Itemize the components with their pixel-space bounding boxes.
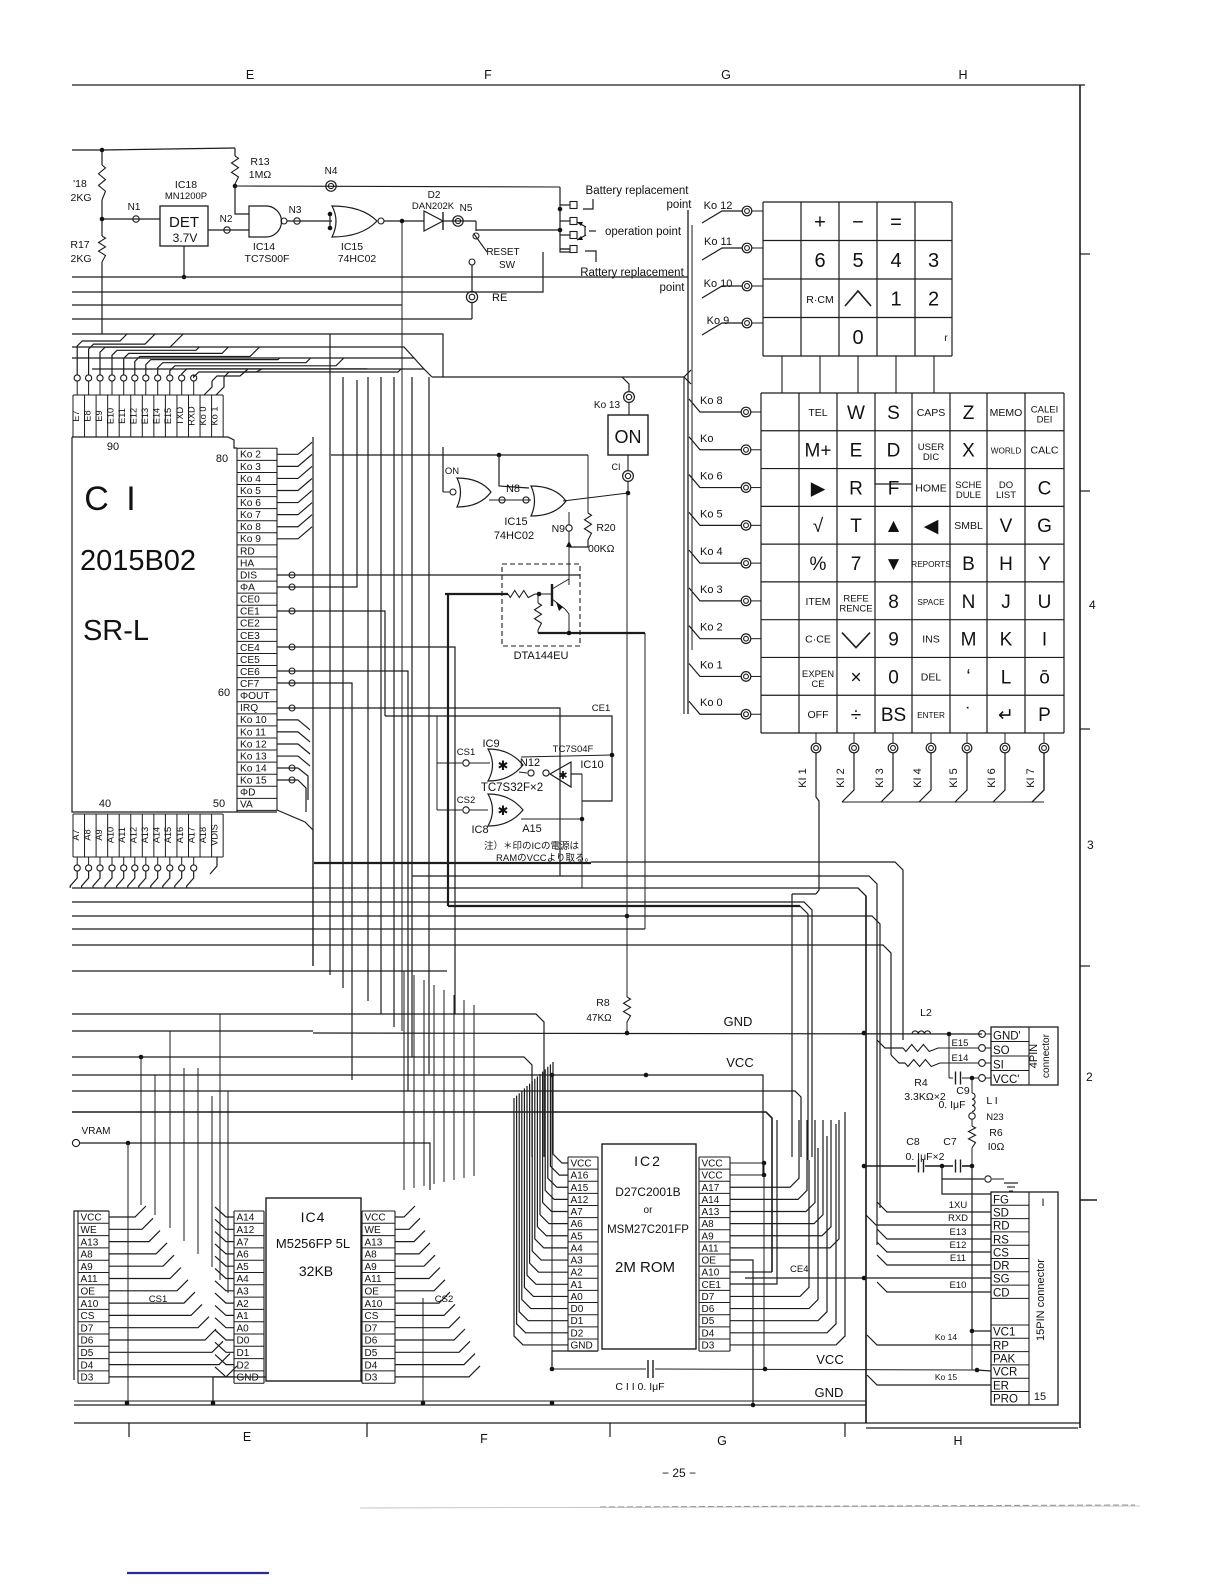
svg-text:Ko 4: Ko 4 xyxy=(240,474,261,485)
svg-text:0: 0 xyxy=(852,327,863,349)
svg-text:Ko 6: Ko 6 xyxy=(240,498,261,509)
svg-text:KI 1: KI 1 xyxy=(797,768,809,788)
svg-text:D2: D2 xyxy=(237,1360,250,1371)
svg-text:A17: A17 xyxy=(702,1183,720,1194)
svg-text:DTA144EU: DTA144EU xyxy=(514,650,569,662)
svg-text:2: 2 xyxy=(928,288,939,310)
gnd rail xyxy=(313,1033,982,1034)
svg-text:3: 3 xyxy=(1087,838,1094,852)
bus verticals above IC4 right fan xyxy=(403,971,405,1190)
pin box column right of C1 xyxy=(236,448,238,810)
resistor R17 xyxy=(99,236,106,262)
bus wire h2 xyxy=(72,252,543,292)
svg-text:A12: A12 xyxy=(571,1195,589,1206)
svg-text:Ko 13: Ko 13 xyxy=(240,751,267,762)
svg-text:0: 0 xyxy=(888,667,899,688)
svg-text:OFF: OFF xyxy=(808,709,829,721)
svg-text:WE: WE xyxy=(81,1225,97,1236)
svg-text:1: 1 xyxy=(890,288,901,310)
battery replacement point squares xyxy=(560,204,570,206)
svg-text:ON: ON xyxy=(445,466,459,477)
svg-text:TC7S04F: TC7S04F xyxy=(553,744,594,755)
page frame top border xyxy=(72,84,1085,86)
fan far-left column to bus xyxy=(109,1206,146,1217)
svg-text:M5256FP 5L: M5256FP 5L xyxy=(276,1236,350,1251)
fan IC2 left xyxy=(553,1062,568,1163)
node dot R13 bottom xyxy=(233,184,238,189)
svg-text:G: G xyxy=(1037,516,1052,537)
svg-text:D3: D3 xyxy=(702,1340,715,1351)
svg-text:15: 15 xyxy=(1034,1391,1046,1403)
svg-text:Battery replacement: Battery replacement xyxy=(586,185,690,197)
svg-text:A15: A15 xyxy=(522,823,542,835)
svg-text:E11: E11 xyxy=(117,408,127,424)
bus vertical x314 xyxy=(312,437,314,966)
svg-text:PRO: PRO xyxy=(993,1394,1018,1406)
page frame bottom border xyxy=(74,1422,1080,1424)
bus mid h y945 xyxy=(72,945,891,1055)
svg-text:A13: A13 xyxy=(702,1207,720,1218)
wires Ko10-Ko13 to bus xyxy=(277,720,310,730)
svg-text:C·CE: C·CE xyxy=(805,634,831,646)
wire stub Ko0 top xyxy=(204,381,212,395)
svg-text:IC4: IC4 xyxy=(301,1209,326,1225)
svg-text:VCC: VCC xyxy=(571,1159,592,1170)
capacitor C7 xyxy=(925,1165,953,1167)
svg-text:CS2: CS2 xyxy=(457,795,475,806)
svg-text:D5: D5 xyxy=(81,1348,94,1359)
svg-text:2KG: 2KG xyxy=(70,253,91,265)
svg-text:CE1: CE1 xyxy=(702,1280,722,1291)
svg-text:CE4: CE4 xyxy=(790,1264,808,1275)
wire thick base feed xyxy=(445,593,508,595)
wire IC14 out xyxy=(287,220,332,222)
wire IC15a to D2 xyxy=(384,220,424,222)
svg-text:CE3: CE3 xyxy=(240,631,260,642)
svg-text:50: 50 xyxy=(213,798,225,810)
svg-text:MN1200P: MN1200P xyxy=(165,191,207,202)
svg-text:VCC': VCC' xyxy=(993,1074,1019,1086)
svg-text:SMBL: SMBL xyxy=(954,520,983,532)
svg-text:H: H xyxy=(999,554,1013,575)
svg-text:%: % xyxy=(810,554,827,575)
grid tick right 5 xyxy=(1080,1199,1097,1201)
svg-text:OE: OE xyxy=(81,1287,96,1298)
resistor R8 xyxy=(626,493,628,997)
svg-text:LIST: LIST xyxy=(996,490,1016,501)
node Ko13 top xyxy=(624,392,635,403)
svg-text:OE: OE xyxy=(365,1287,380,1298)
wire ON net top xyxy=(331,454,588,456)
svg-text:D0: D0 xyxy=(237,1336,250,1347)
bus mid h y929 xyxy=(72,928,645,930)
mark corner top xyxy=(583,199,593,209)
svg-text:DIS: DIS xyxy=(240,570,257,581)
svg-text:SD: SD xyxy=(993,1208,1009,1220)
svg-text:A13: A13 xyxy=(81,1237,99,1248)
svg-text:=: = xyxy=(890,211,902,233)
grid tick right 4 xyxy=(1080,965,1090,967)
svg-text:GND: GND xyxy=(724,1014,753,1029)
pin stub CE4 xyxy=(277,646,298,648)
keyboard main grid xyxy=(761,392,1064,394)
thick border vertical right mid xyxy=(865,896,867,1423)
nand gate IC14 TC7S00F xyxy=(249,206,281,237)
wire right emitter drop xyxy=(644,633,646,929)
key caret symbol xyxy=(845,291,871,306)
svg-text:A7: A7 xyxy=(237,1237,250,1248)
operation point arrows xyxy=(584,226,586,236)
svg-text:VCC: VCC xyxy=(702,1171,723,1182)
svg-text:GND: GND xyxy=(815,1385,844,1400)
svg-text:A5: A5 xyxy=(237,1262,250,1273)
svg-text:connector: connector xyxy=(1041,1033,1052,1078)
svg-text:A0: A0 xyxy=(571,1292,584,1303)
svg-text:4PIN: 4PIN xyxy=(1028,1044,1040,1069)
svg-text:A8: A8 xyxy=(81,1250,94,1261)
pin circles 4pin xyxy=(979,1031,986,1038)
svg-text:A17: A17 xyxy=(186,827,196,843)
svg-text:R13: R13 xyxy=(250,156,269,168)
svg-text:VCR: VCR xyxy=(993,1367,1017,1379)
wire IC8 out xyxy=(521,818,582,820)
svg-text:D7: D7 xyxy=(702,1292,715,1303)
svg-text:Ko 15: Ko 15 xyxy=(935,1372,957,1382)
svg-text:IC15: IC15 xyxy=(341,241,363,253)
scan artifact faint line xyxy=(360,1506,1140,1508)
wire IC15b out xyxy=(563,493,628,501)
wires into 15pin xyxy=(877,1202,991,1212)
svg-text:W: W xyxy=(847,403,865,424)
pin box row bottom of C1 xyxy=(73,813,223,815)
svg-text:C9: C9 xyxy=(956,1085,970,1097)
keypad small grid xyxy=(763,201,952,203)
svg-text:E11: E11 xyxy=(950,1253,966,1264)
pin circles bottom of C1 xyxy=(76,857,78,865)
svg-text:SR-L: SR-L xyxy=(83,615,149,647)
svg-text:A9: A9 xyxy=(81,1262,94,1273)
svg-text:A8: A8 xyxy=(702,1219,715,1230)
resistor R4 lower xyxy=(891,1055,905,1063)
grid tick right 1 xyxy=(1080,253,1090,255)
svg-text:A14: A14 xyxy=(237,1213,255,1224)
svg-text:KI 4: KI 4 xyxy=(912,768,924,788)
svg-text:Ko 3: Ko 3 xyxy=(240,462,261,473)
svg-text:MEMO: MEMO xyxy=(990,407,1023,419)
wire VC1 xyxy=(972,1166,991,1331)
svg-text:D7: D7 xyxy=(81,1323,94,1334)
wire R17 to bus xyxy=(101,262,103,334)
svg-text:CAPS: CAPS xyxy=(917,407,946,419)
svg-text:Ko: Ko xyxy=(700,433,713,445)
wire DET ground xyxy=(183,246,185,277)
svg-text:A4: A4 xyxy=(237,1274,250,1285)
svg-text:RD: RD xyxy=(993,1221,1010,1233)
bus mid h y1057 xyxy=(72,1057,532,1157)
connector 15pin xyxy=(991,1192,1058,1405)
pin stub CE6 xyxy=(277,670,298,672)
pin circles top of C1 xyxy=(74,375,80,381)
pin column IC4 right xyxy=(361,1211,363,1383)
svg-text:DR: DR xyxy=(993,1261,1010,1273)
mark corner bottom xyxy=(585,251,596,262)
svg-text:A10: A10 xyxy=(365,1299,383,1310)
svg-text:15PIN connector: 15PIN connector xyxy=(1035,1259,1047,1341)
svg-text:E13: E13 xyxy=(140,408,150,424)
wire Ko14 RP xyxy=(867,1335,991,1345)
grid tick right 3 xyxy=(1080,728,1090,730)
svg-text:E: E xyxy=(850,441,863,462)
svg-text:A14: A14 xyxy=(152,827,162,843)
svg-text:BS: BS xyxy=(881,705,906,726)
svg-text:CE0: CE0 xyxy=(240,595,260,606)
wire Ko13 drop xyxy=(622,377,629,391)
vertical A15 net xyxy=(581,774,583,888)
svg-text:◀: ◀ xyxy=(924,516,939,537)
svg-text:D4: D4 xyxy=(81,1360,94,1371)
svg-text:IRQ: IRQ xyxy=(240,703,258,714)
svg-text:47KΩ: 47KΩ xyxy=(586,1013,612,1024)
wire CS1 feed xyxy=(436,716,438,763)
wire N4 line xyxy=(235,186,560,187)
svg-text:E: E xyxy=(243,1430,251,1444)
svg-text:SW: SW xyxy=(499,260,516,271)
svg-text:V: V xyxy=(1000,516,1013,537)
svg-text:I: I xyxy=(1042,630,1047,651)
svg-text:3: 3 xyxy=(928,250,939,272)
node C1 below ON xyxy=(627,455,629,470)
svg-text:0. IμF: 0. IμF xyxy=(938,1099,965,1111)
svg-text:E15: E15 xyxy=(952,1038,969,1049)
svg-text:32KB: 32KB xyxy=(299,1263,333,1279)
svg-text:Ko 11: Ko 11 xyxy=(240,727,266,738)
svg-text:A2: A2 xyxy=(237,1299,250,1310)
bus mid h y1031 xyxy=(72,1030,313,1032)
svg-text:A12: A12 xyxy=(237,1225,255,1236)
svg-text:✱: ✱ xyxy=(558,770,567,782)
svg-text:RENCE: RENCE xyxy=(839,603,872,614)
svg-text:ΦD: ΦD xyxy=(240,788,256,799)
svg-text:74HC02: 74HC02 xyxy=(338,253,377,265)
svg-text:CE4: CE4 xyxy=(240,643,260,654)
svg-text:D5: D5 xyxy=(365,1348,378,1359)
pin column RAM left far xyxy=(77,1211,79,1383)
svg-text:A11: A11 xyxy=(81,1274,98,1285)
bottom tick 3 xyxy=(609,1423,611,1437)
svg-text:TC7S00F: TC7S00F xyxy=(245,253,290,265)
svg-text:Ko 9: Ko 9 xyxy=(240,534,261,545)
node N1 xyxy=(133,216,139,222)
svg-text:Ko 11: Ko 11 xyxy=(704,236,732,248)
svg-text:N1: N1 xyxy=(128,202,141,213)
svg-text:90: 90 xyxy=(107,441,119,453)
svg-text:▲: ▲ xyxy=(884,516,903,537)
svg-text:✱: ✱ xyxy=(498,803,509,818)
svg-text:'18: '18 xyxy=(73,178,87,190)
svg-text:IC15: IC15 xyxy=(504,516,527,528)
svg-text:KI 7: KI 7 xyxy=(1025,768,1037,788)
wire CE1 top xyxy=(385,716,612,801)
KI collector line xyxy=(842,801,1044,803)
svg-text:H: H xyxy=(953,1434,962,1448)
svg-text:A5: A5 xyxy=(571,1231,584,1242)
svg-text:IC10: IC10 xyxy=(580,759,603,771)
svg-text:▶: ▶ xyxy=(811,478,826,499)
bus collector end arrows xyxy=(684,370,691,377)
svg-text:G: G xyxy=(721,68,731,82)
svg-text:E13: E13 xyxy=(950,1227,967,1238)
bus verticals middle band xyxy=(329,334,331,975)
vram node xyxy=(72,1139,79,1146)
svg-text:E12: E12 xyxy=(129,408,139,424)
wire FG entry xyxy=(942,1179,991,1194)
svg-text:DET: DET xyxy=(169,214,199,231)
wire VDIS stub xyxy=(210,857,217,874)
wire N1 xyxy=(102,218,160,220)
svg-text:CE1: CE1 xyxy=(240,607,260,618)
svg-text:− 25 −: − 25 − xyxy=(662,1466,696,1480)
svg-text:VC1: VC1 xyxy=(993,1327,1015,1339)
bus mid h y888 xyxy=(72,888,866,1423)
svg-text:0. IμF×2: 0. IμF×2 xyxy=(905,1151,944,1163)
node N9 xyxy=(566,525,572,531)
svg-text:D2: D2 xyxy=(428,190,441,201)
pin column IC4 left xyxy=(233,1211,235,1383)
svg-text:A4: A4 xyxy=(571,1243,584,1254)
svg-text:A7: A7 xyxy=(71,829,81,840)
bus mid h y971 xyxy=(72,970,447,972)
nor gate IC15 pin B2 xyxy=(531,486,566,516)
svg-text:Ko 6: Ko 6 xyxy=(700,471,723,483)
svg-text:A6: A6 xyxy=(237,1250,250,1261)
pin column IC2 left xyxy=(567,1157,569,1351)
svg-text:N23: N23 xyxy=(986,1112,1003,1123)
wire ON to junction xyxy=(627,482,629,493)
svg-text:ENTER: ENTER xyxy=(917,711,945,720)
wire D2 to switch xyxy=(443,220,476,222)
node CS2 xyxy=(463,807,469,813)
page frame right border xyxy=(1079,85,1081,1428)
svg-text:H: H xyxy=(958,68,967,82)
resistor R18 xyxy=(99,165,106,200)
wire IC2 vcc pins xyxy=(730,1162,764,1164)
svg-text:Z: Z xyxy=(963,403,975,424)
wire IC4 gnd xyxy=(213,1377,266,1403)
svg-text:DAN202K: DAN202K xyxy=(412,201,455,212)
vcc rail xyxy=(72,1075,763,1174)
svg-text:R20: R20 xyxy=(596,522,615,534)
resistor R6 xyxy=(971,1119,973,1126)
svg-text:point: point xyxy=(660,282,686,294)
svg-text:√: √ xyxy=(813,516,824,537)
transistor Q1 base resistor xyxy=(508,591,535,598)
svg-text:HA: HA xyxy=(240,558,254,569)
svg-text:Ko 1: Ko 1 xyxy=(209,407,219,426)
svg-text:D3: D3 xyxy=(81,1373,94,1384)
svg-text:point: point xyxy=(667,199,693,211)
wire emitter bottom thick xyxy=(538,632,645,634)
vram branch xyxy=(127,1143,129,1403)
node RE xyxy=(466,291,477,302)
vram wire xyxy=(80,1143,430,1190)
bus left verticals into RAM area xyxy=(140,1057,142,1205)
svg-text:Ko 0: Ko 0 xyxy=(700,697,723,709)
svg-text:Ko 5: Ko 5 xyxy=(240,486,261,497)
wire battery drop xyxy=(560,187,570,252)
svg-text:KI 3: KI 3 xyxy=(874,768,886,788)
svg-text:A10: A10 xyxy=(702,1268,720,1279)
svg-text:A11: A11 xyxy=(365,1274,382,1285)
wire IC2 gnd xyxy=(552,1351,598,1369)
svg-text:F: F xyxy=(888,478,900,499)
wire to FG xyxy=(942,1166,984,1179)
svg-text:ITEM: ITEM xyxy=(805,596,830,608)
left ram pin column bracket xyxy=(74,1211,109,1380)
svg-text:IC2: IC2 xyxy=(634,1153,662,1169)
svg-text:C8: C8 xyxy=(906,1136,920,1148)
fan IC4 left xyxy=(215,1207,234,1217)
svg-text:SO: SO xyxy=(993,1045,1010,1057)
svg-text:A6: A6 xyxy=(571,1219,584,1230)
svg-text:HOME: HOME xyxy=(915,482,947,494)
svg-text:D6: D6 xyxy=(81,1336,94,1347)
svg-text:S: S xyxy=(887,403,900,424)
svg-text:C: C xyxy=(1038,478,1052,499)
svg-text:A13: A13 xyxy=(365,1237,383,1248)
svg-text:Ko 15: Ko 15 xyxy=(240,776,267,787)
svg-text:1MΩ: 1MΩ xyxy=(249,169,272,181)
svg-text:E7: E7 xyxy=(71,410,81,421)
transistor pull-down resistor xyxy=(537,594,539,603)
svg-text:N4: N4 xyxy=(325,166,338,177)
wire Ko0 Ko1 to right xyxy=(212,369,248,381)
svg-text:A12: A12 xyxy=(129,827,139,843)
svg-text:E10: E10 xyxy=(105,408,115,424)
svg-text:D5: D5 xyxy=(702,1316,715,1327)
svg-text:A18: A18 xyxy=(198,827,208,843)
svg-text:operation point: operation point xyxy=(605,226,682,238)
svg-text:Ko 2: Ko 2 xyxy=(240,450,261,461)
svg-text:D3: D3 xyxy=(365,1373,378,1384)
vcc vertical from rail xyxy=(551,1074,553,1369)
svg-text:A3: A3 xyxy=(571,1256,584,1267)
svg-text:注）＊印のICの電源は: 注）＊印のICの電源は xyxy=(484,840,580,852)
svg-text:ΦA: ΦA xyxy=(240,582,255,593)
nor gate IC15 pin A xyxy=(332,206,377,237)
wire N8 xyxy=(443,491,450,493)
svg-text:CALC: CALC xyxy=(1030,445,1058,457)
svg-text:P: P xyxy=(1038,705,1051,726)
svg-text:Ko 1: Ko 1 xyxy=(700,659,723,671)
svg-text:A9: A9 xyxy=(94,829,104,840)
svg-text:WORLD: WORLD xyxy=(991,447,1022,456)
svg-text:R6: R6 xyxy=(989,1127,1003,1139)
ground symbol xyxy=(992,1178,1004,1180)
svg-text:A15: A15 xyxy=(571,1183,589,1194)
capacitor C8 xyxy=(864,1165,916,1167)
node N23 xyxy=(969,1113,975,1119)
svg-text:R·CM: R·CM xyxy=(806,294,833,306)
svg-text:A8: A8 xyxy=(365,1250,378,1261)
svg-text:7: 7 xyxy=(851,554,862,575)
svg-text:Ko 10: Ko 10 xyxy=(240,715,267,726)
svg-text:CS: CS xyxy=(81,1311,95,1322)
svg-text:RXD: RXD xyxy=(186,406,196,426)
inductor L1 xyxy=(971,1078,973,1093)
fan IC2 right upper xyxy=(730,1120,799,1187)
svg-text:D4: D4 xyxy=(365,1360,378,1371)
resistor R4 upper xyxy=(877,1040,903,1048)
